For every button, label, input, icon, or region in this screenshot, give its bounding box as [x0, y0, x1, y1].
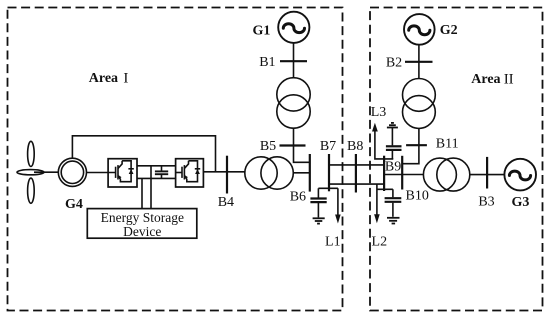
inverted ground above C3 — [391, 122, 394, 124]
svg-text:G2: G2 — [440, 23, 458, 38]
wire B5 to B6 — [294, 146, 310, 163]
turbine shaft wire — [34, 171, 58, 173]
DC link rail - — [137, 177, 176, 179]
load L1 arrow — [337, 188, 339, 215]
wire T1 to B5 — [293, 128, 295, 145]
svg-text:L1: L1 — [325, 234, 341, 249]
bus B4 — [226, 156, 228, 194]
svg-text:G4: G4 — [65, 197, 83, 212]
svg-text:I: I — [123, 70, 128, 86]
svg-text:L3: L3 — [371, 105, 387, 120]
bus B10 — [401, 156, 403, 190]
svg-text:Energy Storage: Energy Storage — [101, 210, 184, 225]
wire G2 to B2 — [418, 45, 420, 79]
svg-text:L2: L2 — [372, 234, 388, 249]
IGBT Q1 with diode D1 — [116, 161, 134, 182]
svg-text:B7: B7 — [320, 139, 336, 154]
DC link rail + — [137, 165, 176, 167]
bus B3 — [486, 157, 488, 189]
converter U2 box — [176, 159, 204, 187]
ground — [313, 217, 325, 219]
wire rails to energy storage — [141, 178, 143, 208]
ground — [387, 217, 400, 219]
svg-text:B1: B1 — [259, 55, 275, 70]
wind turbine blades — [28, 141, 35, 166]
wire T3 to B6 — [293, 172, 310, 174]
wire B9 to transformer T4 — [384, 174, 424, 176]
converter U1 box — [108, 159, 137, 187]
wire G4 to converter 1 gate — [87, 172, 116, 174]
wire G1 to B1 — [293, 43, 295, 78]
svg-text:Area: Area — [471, 72, 500, 87]
transformer T4 — [423, 158, 456, 191]
bus B5 — [280, 144, 306, 146]
bus B7 — [328, 154, 330, 191]
bus B6 — [309, 154, 311, 192]
feedback wire G4 top to converter output — [72, 136, 215, 172]
transformer T1 — [277, 78, 310, 111]
wire capacitor/load branch at B7 — [318, 187, 338, 189]
generator G1 — [278, 12, 309, 43]
capacitor C3 above B9 — [391, 128, 393, 146]
tie line upper B7-B9 — [329, 164, 384, 166]
svg-text:G1: G1 — [253, 23, 271, 38]
generator G4 — [58, 158, 86, 186]
svg-text:B11: B11 — [436, 137, 459, 152]
svg-text:B10: B10 — [406, 189, 429, 204]
wire T2 through B11 down to B10 — [402, 128, 419, 163]
capacitor C4 at B9 — [392, 189, 394, 197]
bus B8 — [355, 154, 357, 193]
svg-text:G3: G3 — [511, 195, 529, 210]
wire T4 to G3 — [470, 174, 505, 176]
IGBT Q2 with diode D2 — [176, 161, 201, 182]
DC link capacitor C1 — [161, 166, 163, 171]
svg-text:B5: B5 — [260, 139, 276, 154]
transformer T2 — [403, 79, 436, 112]
generator G3 — [504, 159, 536, 191]
load L2 arrow — [376, 184, 378, 215]
capacitor C2 at B6 — [317, 188, 319, 197]
svg-text:II: II — [504, 71, 514, 87]
transformer T3 — [245, 157, 277, 189]
svg-text:B9: B9 — [385, 160, 401, 175]
wire L2 to capacitor C4 — [377, 188, 393, 190]
svg-text:B4: B4 — [218, 195, 234, 210]
bus B1 — [280, 60, 307, 62]
tie line lower B7-B9 — [329, 183, 384, 185]
Area II dashed boundary box — [370, 8, 543, 311]
svg-text:Device: Device — [123, 224, 161, 239]
svg-text:B8: B8 — [347, 139, 363, 154]
energy storage device box — [87, 209, 197, 239]
generator G2 — [404, 14, 435, 45]
Area I dashed boundary box — [8, 8, 343, 311]
svg-text:B6: B6 — [290, 189, 306, 204]
wire converter 2 to transformer T3 — [203, 171, 244, 173]
svg-text:B3: B3 — [478, 195, 494, 210]
svg-text:Area: Area — [89, 71, 118, 86]
svg-text:B2: B2 — [386, 55, 402, 70]
load L3 arrow — [372, 123, 378, 132]
bus B9 — [383, 156, 385, 191]
bus B2 — [405, 61, 433, 63]
bus B11 — [406, 144, 427, 146]
